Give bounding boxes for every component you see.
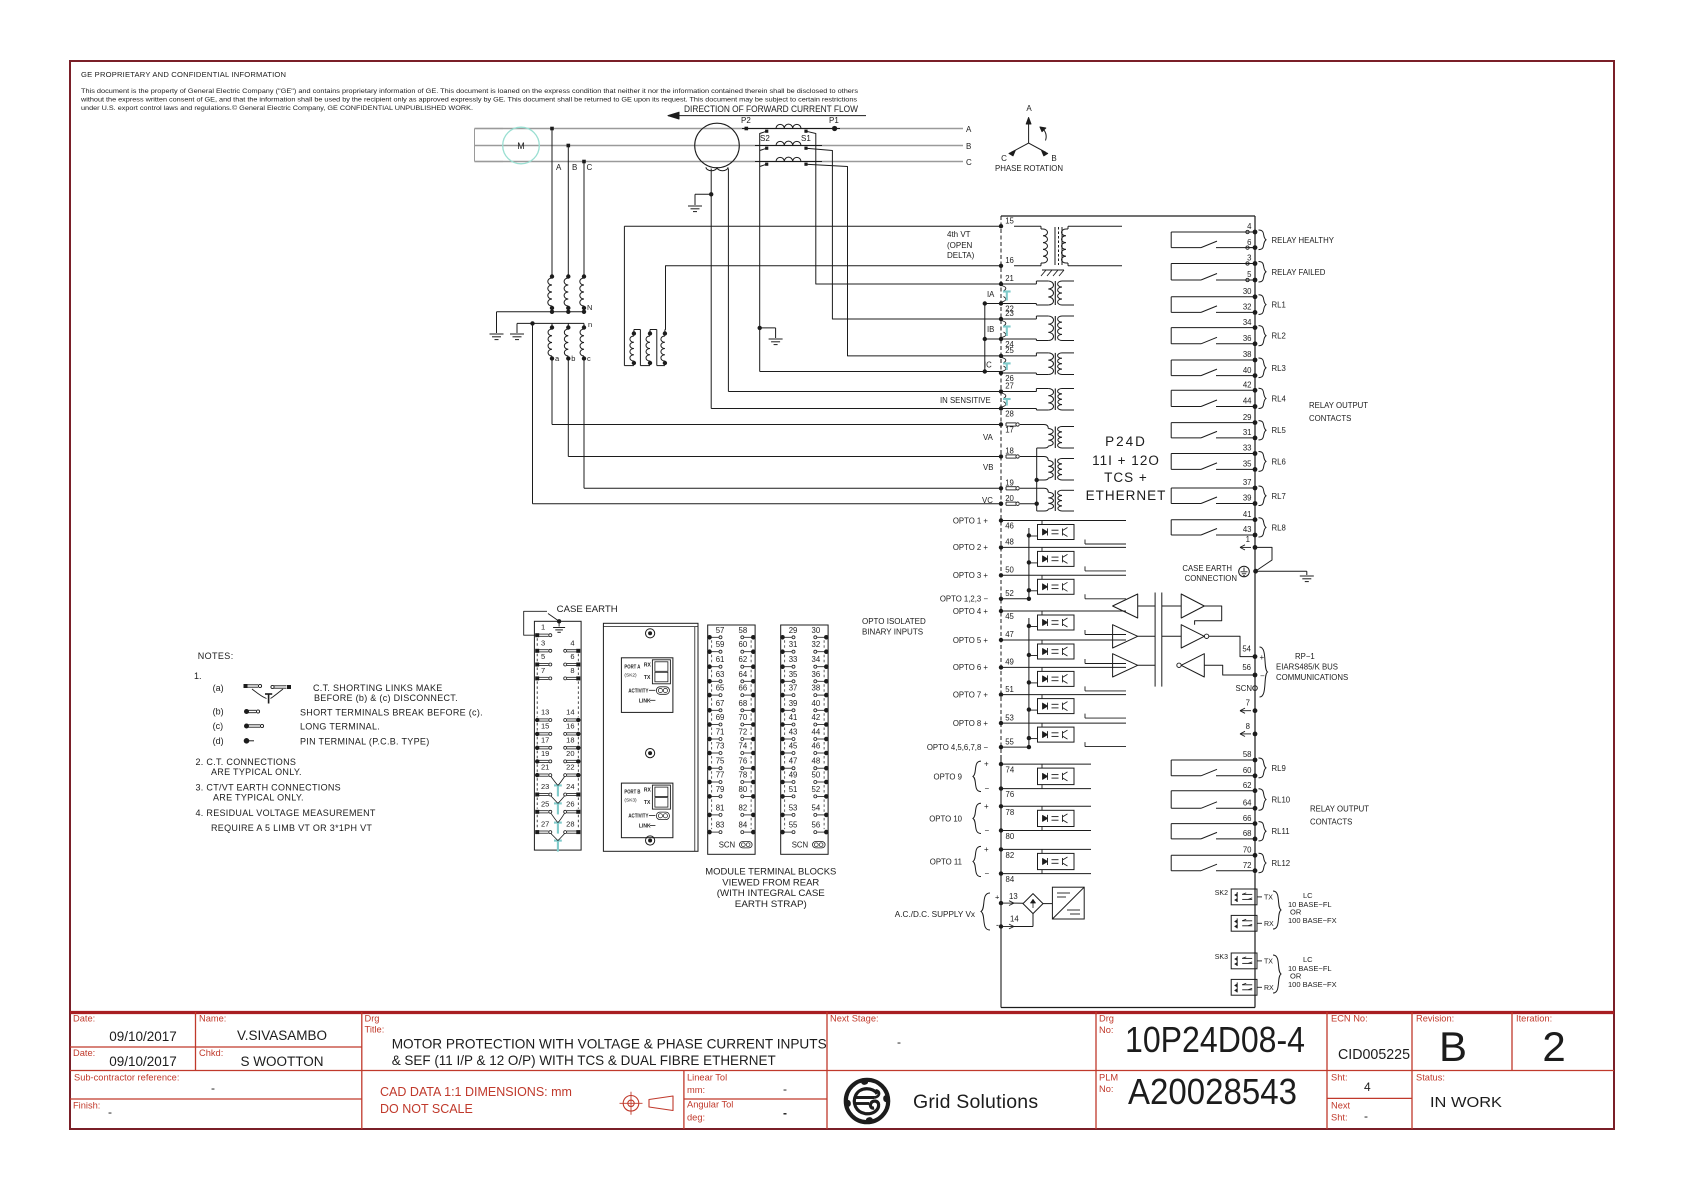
- phase rotation arc: [1040, 127, 1046, 141]
- svg-text:VA: VA: [983, 433, 994, 442]
- svg-text:M: M: [517, 141, 525, 151]
- voltage neutral bus: [1020, 448, 1039, 511]
- svg-text:74: 74: [739, 742, 748, 751]
- transformer 4th VT: [1001, 226, 1122, 266]
- direction arrow: [668, 112, 866, 119]
- svg-text:A: A: [556, 163, 562, 172]
- OPTO 11 rails: [1001, 849, 1091, 873]
- tap junction C: [582, 160, 586, 164]
- svg-text:42: 42: [1243, 381, 1252, 390]
- svg-text:60: 60: [1243, 766, 1252, 775]
- phase rotation B arm: [1029, 143, 1057, 163]
- svg-text:SK3: SK3: [1215, 954, 1228, 961]
- output contact RL10: [1171, 781, 1291, 811]
- svg-text:23: 23: [1005, 309, 1014, 318]
- note 1a symbol: [244, 684, 292, 704]
- svg-text:09/10/2017: 09/10/2017: [109, 1054, 177, 1069]
- svg-text:B: B: [1051, 154, 1056, 163]
- field labels row1: [73, 1014, 1552, 1036]
- open delta coil 2: [646, 330, 657, 366]
- svg-text:5: 5: [1247, 270, 1252, 279]
- svg-text:32: 32: [812, 640, 821, 649]
- svg-text:S1: S1: [801, 134, 811, 143]
- svg-text:69: 69: [716, 713, 725, 722]
- svg-text:IA: IA: [987, 290, 995, 299]
- svg-text:63: 63: [716, 670, 725, 679]
- SK3 label: [1215, 954, 1228, 961]
- svg-text:RP−1: RP−1: [1295, 652, 1315, 661]
- output contact RL7: [1171, 478, 1286, 506]
- svg-text:7: 7: [541, 666, 545, 675]
- svg-text:72: 72: [739, 728, 748, 737]
- open delta coil 3: [661, 330, 667, 366]
- note 2: [196, 757, 302, 777]
- supply psu box: [1052, 887, 1084, 919]
- svg-text:P1: P1: [829, 116, 839, 125]
- svg-text:without the express written co: without the express written consent of G…: [80, 97, 858, 104]
- svg-text:ACTIVITY: ACTIVITY: [628, 814, 649, 820]
- drg title line2: [392, 1052, 776, 1068]
- output contact RL5: [1171, 413, 1286, 441]
- CT return link bus: [983, 301, 1001, 373]
- SK2 RX port: [1231, 915, 1274, 931]
- svg-text:ETHERNET: ETHERNET: [1086, 488, 1167, 503]
- case earth wire right: [1256, 571, 1307, 575]
- svg-text:39: 39: [789, 699, 798, 708]
- opto terminal 50: [953, 566, 1015, 581]
- chkd value: [241, 1054, 324, 1069]
- svg-text:C.T. SHORTING LINKS MAKE: C.T. SHORTING LINKS MAKE: [313, 683, 443, 693]
- svg-text:VIEWED FROM REAR: VIEWED FROM REAR: [722, 877, 820, 887]
- terminal 54: [1242, 645, 1264, 663]
- svg-text:CID005225: CID005225: [1338, 1047, 1410, 1063]
- date checked value: [109, 1054, 177, 1069]
- svg-text:DO NOT SCALE: DO NOT SCALE: [380, 1102, 473, 1116]
- svg-text:Finish:: Finish:: [73, 1101, 100, 1111]
- svg-text:21: 21: [541, 763, 549, 772]
- svg-text:4th VT: 4th VT: [947, 230, 971, 239]
- OPTO 9 label: [934, 760, 990, 794]
- svg-text:Chkd:: Chkd:: [199, 1048, 223, 1058]
- svg-text:15: 15: [541, 721, 549, 730]
- svg-text:CASE EARTH: CASE EARTH: [557, 604, 618, 615]
- svg-text:S2: S2: [760, 134, 770, 143]
- svg-text:Sht:: Sht:: [1331, 1073, 1348, 1083]
- svg-text:26: 26: [566, 799, 574, 808]
- svg-text:40: 40: [812, 699, 821, 708]
- relay output contacts label 2: [1310, 805, 1369, 827]
- svg-text:Next Stage:: Next Stage:: [830, 1014, 879, 1024]
- SK3 RX port: [1231, 979, 1274, 995]
- svg-text:82: 82: [739, 803, 748, 812]
- svg-text:54: 54: [1242, 645, 1251, 654]
- svg-text:PORT B: PORT B: [624, 790, 640, 796]
- svg-text:5: 5: [541, 652, 545, 661]
- grid VT circle: [695, 123, 740, 171]
- svg-text:RELAY OUTPUT: RELAY OUTPUT: [1310, 805, 1369, 814]
- case earth strap wire: [1253, 547, 1272, 573]
- svg-text:LONG TERMINAL.: LONG TERMINAL.: [300, 722, 380, 732]
- svg-text:(a): (a): [213, 683, 224, 693]
- relay model label: [1086, 434, 1167, 503]
- svg-text:37: 37: [1243, 478, 1252, 487]
- svg-text:MOTOR PROTECTION WITH VOLTAGE: MOTOR PROTECTION WITH VOLTAGE & PHASE CU…: [392, 1036, 827, 1052]
- svg-text:Drg: Drg: [1099, 1014, 1114, 1024]
- svg-text:24: 24: [566, 782, 574, 791]
- grid VT earth junction: [709, 192, 713, 196]
- wire CT S1-B to terminal 23: [806, 148, 1001, 319]
- svg-text:OPTO 2 +: OPTO 2 +: [953, 543, 989, 552]
- opto coupler y=723: [1029, 723, 1126, 747]
- svg-text:1: 1: [541, 623, 545, 632]
- svg-text:CASE EARTH: CASE EARTH: [1182, 564, 1232, 573]
- svg-text:67: 67: [716, 699, 725, 708]
- svg-text:27: 27: [541, 820, 549, 829]
- svg-text:ACTIVITY: ACTIVITY: [628, 688, 649, 694]
- field labels row2: [73, 1048, 1445, 1123]
- svg-text:36: 36: [812, 670, 821, 679]
- svg-text:TX: TX: [1264, 959, 1273, 966]
- svg-text:C: C: [1001, 154, 1007, 163]
- svg-text:Sub-contractor reference:: Sub-contractor reference:: [74, 1073, 179, 1083]
- output contact RL11: [1171, 814, 1289, 842]
- wire phase A tap: [551, 129, 553, 277]
- case earth ground: [1300, 576, 1314, 582]
- svg-text:+: +: [984, 802, 989, 811]
- rear terminal strip 29-56: [780, 625, 828, 854]
- CT input transformer IN SENSITIVE: [1001, 389, 1074, 411]
- svg-text:CONTACTS: CONTACTS: [1309, 414, 1351, 423]
- projection symbol: [620, 1092, 674, 1115]
- svg-text:RL5: RL5: [1272, 426, 1287, 435]
- svg-text:1: 1: [1246, 535, 1250, 544]
- voltage transformer VB: [1020, 457, 1074, 481]
- svg-text:2. C.T. CONNECTIONS: 2. C.T. CONNECTIONS: [196, 757, 297, 767]
- svg-text:IN SENSITIVE: IN SENSITIVE: [940, 396, 991, 405]
- svg-text:(OPEN: (OPEN: [947, 241, 973, 250]
- case earth connection symbol: [1239, 566, 1250, 577]
- svg-text:80: 80: [739, 785, 748, 794]
- svg-text:38: 38: [1243, 350, 1252, 359]
- 4th VT label: [947, 230, 975, 260]
- supply wire 13: [1014, 902, 1023, 904]
- svg-text:11I + 12O: 11I + 12O: [1092, 453, 1160, 468]
- CT P1 mark: [829, 116, 839, 131]
- svg-text:42: 42: [812, 713, 821, 722]
- svg-text:7: 7: [1246, 699, 1250, 708]
- svg-text:EIARS485/K BUS: EIARS485/K BUS: [1276, 663, 1338, 672]
- svg-text:2: 2: [1542, 1023, 1565, 1070]
- opto group2 negative rail: [1001, 618, 1031, 749]
- OPTO 11 label: [930, 845, 990, 878]
- svg-text:RELAY OUTPUT: RELAY OUTPUT: [1309, 401, 1368, 410]
- svg-text:84: 84: [1006, 875, 1015, 884]
- svg-text:SCN: SCN: [719, 841, 735, 850]
- CT common earth: [769, 339, 783, 345]
- svg-text:A.C./D.C. SUPPLY Vx: A.C./D.C. SUPPLY Vx: [895, 910, 975, 919]
- opto terminal 84: [999, 871, 1015, 884]
- wire phase B tap: [567, 146, 569, 277]
- svg-text:RX: RX: [644, 662, 652, 668]
- opto terminal 82: [999, 847, 1014, 860]
- comm isolation barrier: [1155, 593, 1162, 687]
- module screw y=840.5: [646, 836, 655, 845]
- OPTO 10 label: [929, 802, 989, 835]
- svg-text:SCN: SCN: [792, 841, 808, 850]
- tap labels: [556, 163, 593, 172]
- svg-text:64: 64: [1243, 799, 1252, 808]
- svg-text:61: 61: [716, 655, 725, 664]
- next stage value: [897, 1035, 901, 1049]
- rear terminal strip 57-84: [707, 625, 755, 854]
- CT primary conductor B: [755, 145, 822, 147]
- CT shorting link pin IN SENSITIVE: [999, 382, 1014, 419]
- svg-text:21: 21: [1005, 274, 1014, 283]
- opto terminal 55: [927, 737, 1015, 752]
- phase A busbar: [475, 128, 964, 130]
- svg-text:Revision:: Revision:: [1416, 1014, 1454, 1024]
- svg-text:RX: RX: [1264, 985, 1274, 992]
- linear tol value: [783, 1082, 787, 1096]
- terminal 15: [999, 216, 1015, 228]
- ecn no value: [1338, 1047, 1410, 1063]
- svg-text:17: 17: [1005, 426, 1014, 435]
- supply wire to psu: [1043, 903, 1052, 905]
- svg-text:58: 58: [1243, 750, 1252, 759]
- svg-text:56: 56: [812, 821, 821, 830]
- note 1a text: [313, 683, 458, 703]
- svg-text:RELAY FAILED: RELAY FAILED: [1272, 268, 1326, 277]
- svg-text:52: 52: [812, 785, 821, 794]
- opto coupler y=575: [1029, 575, 1126, 599]
- svg-text:(b): (b): [213, 707, 224, 717]
- svg-text:50: 50: [1005, 566, 1014, 575]
- svg-text:(SK2): (SK2): [624, 672, 637, 678]
- open delta link 1: [640, 330, 650, 366]
- svg-text:MODULE TERMINAL BLOCKS: MODULE TERMINAL BLOCKS: [705, 867, 836, 877]
- VT secondary head rail n: [517, 320, 592, 329]
- svg-text:45: 45: [789, 742, 798, 751]
- CT shorting link pin IB: [999, 309, 1015, 349]
- svg-text:-: -: [1364, 1109, 1368, 1123]
- opto channel rail y=520: [1001, 520, 1126, 522]
- svg-text:OPTO 11: OPTO 11: [930, 858, 962, 867]
- svg-text:37: 37: [789, 684, 798, 693]
- grid VT right leg: [727, 169, 729, 392]
- phase C busbar: [475, 161, 964, 163]
- svg-text:52: 52: [1005, 589, 1014, 598]
- svg-text:20: 20: [566, 749, 574, 758]
- svg-text:Angular Tol: Angular Tol: [687, 1100, 733, 1110]
- VT secondary winding b: [564, 323, 575, 363]
- svg-text:B: B: [1439, 1023, 1467, 1070]
- svg-text:70: 70: [739, 713, 748, 722]
- open delta left riser: [623, 226, 625, 365]
- VT primary earth: [490, 334, 504, 340]
- svg-text:Name:: Name:: [199, 1014, 226, 1024]
- sub-contractor value: [211, 1081, 215, 1095]
- svg-text:(SK3): (SK3): [624, 798, 637, 804]
- opto terminal 51: [953, 685, 1014, 700]
- supply wire 14: [1014, 914, 1033, 927]
- terminal 1: [1240, 535, 1257, 550]
- CT B terminals: [765, 147, 808, 150]
- SK2 brace: [1273, 891, 1281, 929]
- proprietary paragraph: [80, 88, 859, 112]
- SK3 TX port: [1231, 953, 1273, 969]
- opto channel rail y=695: [1001, 694, 1126, 696]
- SK3 media label: [1288, 955, 1337, 989]
- svg-text:P24D: P24D: [1105, 434, 1147, 449]
- opto terminal 53: [953, 713, 1014, 728]
- svg-text:B: B: [572, 163, 577, 172]
- svg-text:P2: P2: [741, 116, 751, 125]
- svg-text:mm:: mm:: [687, 1085, 705, 1095]
- svg-text:51: 51: [789, 785, 798, 794]
- svg-text:LINK: LINK: [639, 698, 651, 704]
- svg-text:62: 62: [739, 655, 748, 664]
- svg-text:N: N: [587, 303, 592, 312]
- svg-text:CONTACTS: CONTACTS: [1310, 818, 1352, 827]
- svg-text:(WITH INTEGRAL CASE: (WITH INTEGRAL CASE: [717, 888, 825, 898]
- svg-text:PIN TERMINAL (P.C.B. TYPE): PIN TERMINAL (P.C.B. TYPE): [300, 737, 430, 747]
- svg-text:54: 54: [812, 803, 821, 812]
- SK3 brace: [1273, 955, 1281, 993]
- opto terminal 76: [999, 786, 1014, 799]
- svg-text:-: -: [108, 1105, 112, 1119]
- motor feeder bracket: [475, 129, 504, 162]
- name value: [237, 1028, 327, 1043]
- output contact RL12: [1171, 846, 1290, 874]
- svg-text:66: 66: [1243, 814, 1252, 823]
- svg-text:RX: RX: [644, 788, 652, 794]
- svg-text:28: 28: [566, 820, 574, 829]
- open delta coil 1: [624, 330, 640, 366]
- output contact RL6: [1171, 444, 1286, 472]
- output contact RL8: [1171, 510, 1286, 537]
- cad data note: [380, 1085, 572, 1116]
- svg-text:41: 41: [1243, 510, 1252, 519]
- svg-text:55: 55: [789, 821, 798, 830]
- module PORT B block: [621, 783, 673, 838]
- supply label: [895, 893, 1000, 931]
- svg-text:6: 6: [570, 652, 574, 661]
- case earth term1 hook: [524, 611, 547, 635]
- svg-text:Drg: Drg: [365, 1014, 380, 1024]
- terminal 14: [999, 915, 1020, 929]
- svg-text:19: 19: [541, 749, 549, 758]
- wire open delta to terminal 15: [624, 225, 1001, 227]
- svg-text:-: -: [897, 1035, 901, 1049]
- svg-text:−: −: [985, 826, 990, 835]
- opto terminal 52: [940, 589, 1014, 604]
- terminal 17: [999, 422, 1020, 434]
- svg-text:ARE TYPICAL ONLY.: ARE TYPICAL ONLY.: [211, 767, 302, 777]
- svg-text:DELTA): DELTA): [947, 251, 975, 260]
- svg-text:RL8: RL8: [1272, 523, 1286, 532]
- svg-text:8: 8: [570, 666, 574, 675]
- svg-text:Next: Next: [1331, 1101, 1351, 1111]
- svg-text:ARE TYPICAL ONLY.: ARE TYPICAL ONLY.: [213, 792, 304, 802]
- output contact RL4: [1171, 381, 1286, 409]
- opto channel rail y=667: [1001, 666, 1126, 668]
- svg-text:4: 4: [1364, 1080, 1371, 1094]
- comm labels: [1276, 652, 1348, 682]
- svg-text:59: 59: [716, 640, 725, 649]
- wire n to terminal 20: [533, 323, 1002, 503]
- svg-text:Date:: Date:: [73, 1014, 95, 1024]
- svg-text:A20028543: A20028543: [1128, 1071, 1297, 1112]
- SK2 label: [1215, 890, 1228, 897]
- opto coupler y=695: [1029, 695, 1126, 719]
- svg-text:3. CT/VT EARTH CONNECTIONS: 3. CT/VT EARTH CONNECTIONS: [196, 782, 342, 792]
- svg-text:OPTO 6 +: OPTO 6 +: [953, 663, 989, 672]
- svg-text:C: C: [966, 158, 972, 167]
- svg-text:under U.S. export control laws: under U.S. export control laws and regul…: [81, 104, 473, 112]
- svg-text:29: 29: [789, 626, 798, 635]
- wire c to terminal 19: [584, 359, 1001, 489]
- relay case outline: [1001, 216, 1255, 1008]
- svg-text:-: -: [996, 920, 999, 930]
- svg-text:IB: IB: [987, 325, 994, 334]
- wire phase C tap: [583, 162, 585, 277]
- drg title line1: [392, 1036, 827, 1052]
- wire a to terminal 17: [552, 359, 1001, 425]
- VT secondary winding a: [548, 323, 560, 363]
- output contact RL2: [1171, 318, 1286, 346]
- svg-text:SHORT TERMINALS BREAK BEFORE (: SHORT TERMINALS BREAK BEFORE (c).: [300, 708, 483, 718]
- svg-text:OPTO ISOLATED: OPTO ISOLATED: [862, 617, 926, 626]
- svg-text:20: 20: [1005, 494, 1014, 503]
- wire b to terminal 18: [568, 359, 1001, 457]
- svg-text:This document is the property: This document is the property of General…: [81, 88, 859, 95]
- relay output contacts label 1: [1309, 401, 1368, 423]
- svg-text:C: C: [587, 163, 593, 172]
- svg-text:CONNECTION: CONNECTION: [1185, 574, 1237, 583]
- svg-text:Iteration:: Iteration:: [1516, 1014, 1552, 1024]
- svg-text:58: 58: [739, 626, 748, 635]
- svg-text:RL1: RL1: [1272, 301, 1286, 310]
- svg-text:33: 33: [789, 655, 798, 664]
- module screw y=753.1: [646, 749, 655, 758]
- svg-text:33: 33: [1243, 444, 1252, 453]
- svg-text:RL6: RL6: [1272, 457, 1286, 466]
- comm brace: [1260, 647, 1268, 697]
- svg-text:48: 48: [1005, 538, 1014, 547]
- comm buffer T4: [1162, 594, 1222, 625]
- module rear panel: [603, 623, 698, 851]
- grid VT earth: [688, 206, 702, 212]
- OPTO 10 rails: [1001, 806, 1091, 830]
- status value: [1430, 1094, 1502, 1111]
- svg-text:4. RESIDUAL VOLTAGE MEASURE: 4. RESIDUAL VOLTAGE MEASUREMENT: [196, 808, 376, 818]
- VT primary winding x=552: [548, 274, 554, 310]
- motor M1: [503, 127, 540, 164]
- svg-text:45: 45: [1005, 612, 1014, 621]
- svg-text:SCN: SCN: [1236, 684, 1252, 693]
- opto terminal 80: [999, 828, 1015, 841]
- svg-text:−: −: [985, 784, 990, 793]
- svg-text:S WOOTTON: S WOOTTON: [241, 1054, 324, 1069]
- svg-text:68: 68: [1243, 829, 1252, 838]
- VT primary star point N: [550, 303, 593, 314]
- grid solutions wordmark: [913, 1091, 1038, 1113]
- svg-text:V.SIVASAMBO: V.SIVASAMBO: [237, 1028, 327, 1043]
- wire VT right leg to terminal 27: [728, 391, 1001, 393]
- CT primary conductor A: [742, 128, 840, 130]
- grid VT left leg: [710, 169, 712, 409]
- svg-text:14: 14: [566, 708, 574, 717]
